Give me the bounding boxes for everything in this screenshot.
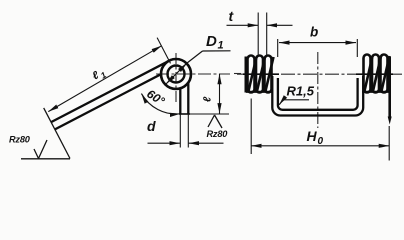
b extension line right — [356, 39, 358, 57]
extension line for l bottom — [190, 113, 229, 115]
coil crossing diagonal 2 — [257, 57, 265, 91]
right tail arrow end — [388, 117, 392, 125]
svg-text:Rz80: Rz80 — [207, 129, 229, 139]
H0 extension line right — [388, 126, 390, 161]
R1,5 shelf — [283, 99, 309, 101]
coil crossing diagonal 3 — [266, 57, 274, 91]
left coil block — [246, 56, 274, 93]
H0 extension line left — [250, 99, 252, 155]
coil inner circle — [168, 66, 185, 83]
label l — [202, 96, 214, 102]
horizontal centerline right view — [237, 73, 402, 75]
loop 2 — [256, 56, 263, 93]
D1 leader shelf — [203, 50, 231, 52]
U-bracket outer contour — [272, 76, 363, 116]
coil bottom wire band — [362, 91, 389, 93]
right coil block — [362, 55, 390, 119]
60 degree arc — [141, 94, 180, 114]
loop 5 — [372, 55, 379, 93]
svg-text:1: 1 — [218, 40, 224, 52]
coil vertical centerline — [175, 53, 177, 103]
R1,5 leader arrow — [279, 100, 283, 105]
vertical centerline right view — [317, 52, 319, 128]
t extension line 1 — [257, 13, 259, 57]
svg-text:D: D — [206, 33, 217, 50]
centerline emphasis across left block — [243, 73, 279, 75]
label l1 — [90, 66, 108, 84]
upper extension line for l1 — [157, 38, 170, 64]
coil horizontal centerline — [156, 73, 230, 75]
roughness symbol Rz80 at leg end — [208, 115, 222, 128]
coil outer circle — [161, 59, 191, 89]
d dimension right segment — [189, 142, 224, 144]
coil crossing diagonal 6 — [382, 56, 390, 91]
arm bottom line — [55, 74, 161, 129]
svg-text:60°: 60° — [144, 87, 167, 109]
D1 leader — [187, 51, 203, 63]
label 60deg — [144, 87, 167, 109]
D1 diameter dimension line — [166, 63, 187, 84]
left tail wire — [245, 57, 248, 93]
svg-text:d: d — [147, 118, 156, 134]
svg-text:b: b — [310, 25, 318, 40]
loop 1 — [248, 56, 255, 93]
svg-text:R1,5: R1,5 — [287, 84, 315, 99]
centerline emphasis across right block — [356, 73, 393, 75]
svg-text:t: t — [229, 8, 235, 24]
loop 6 — [381, 55, 388, 93]
t extension line 2 — [266, 13, 268, 57]
loop 3 — [265, 56, 272, 93]
svg-text:ℓ: ℓ — [202, 96, 214, 102]
b dimension line — [279, 42, 356, 44]
b extension line left — [277, 39, 279, 57]
svg-text:0: 0 — [318, 136, 324, 147]
arm end face line — [44, 108, 70, 159]
d dimension left segment — [148, 142, 181, 144]
roughness symbol Rz80 at arm end — [34, 140, 47, 159]
leg left line — [179, 88, 181, 114]
l1 dimension line — [48, 46, 161, 112]
arm top line — [51, 60, 171, 122]
l dimension line — [219, 74, 221, 114]
svg-text:H: H — [307, 128, 318, 144]
svg-text:Rz80: Rz80 — [9, 135, 31, 145]
U-bracket inner contour — [278, 78, 358, 110]
leg right line — [187, 83, 189, 114]
extension line below leg left — [179, 114, 181, 148]
ground line at arm end — [21, 158, 70, 160]
loop 4 — [364, 55, 371, 93]
t dimension right segment — [267, 24, 293, 26]
right tail wire going down — [388, 57, 391, 119]
coil crossing diagonal 4 — [365, 56, 373, 91]
H0 dimension line — [251, 145, 389, 147]
coil crossing diagonal 1 — [249, 57, 257, 91]
coil crossing diagonal 5 — [373, 56, 381, 91]
leg end face — [179, 113, 190, 115]
coil bottom wire band — [246, 91, 272, 93]
extension line below leg right — [187, 114, 189, 148]
t dimension left segment — [227, 24, 259, 26]
